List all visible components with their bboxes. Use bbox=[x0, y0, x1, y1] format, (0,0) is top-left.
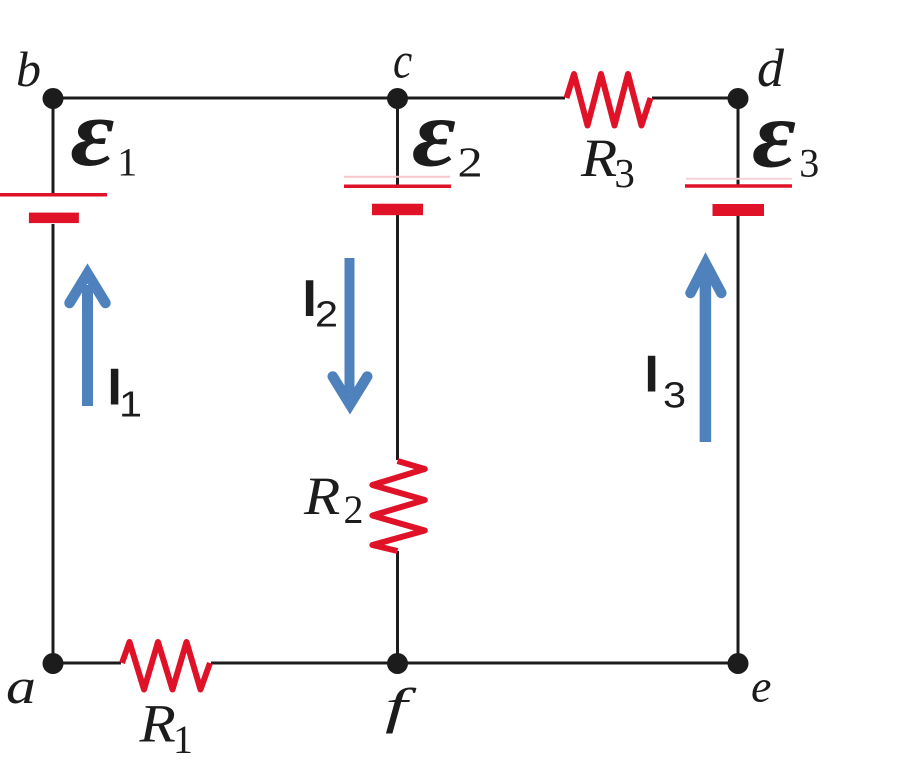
svg-text:3: 3 bbox=[799, 141, 819, 186]
svg-text:3: 3 bbox=[663, 376, 686, 416]
svg-text:1: 1 bbox=[173, 717, 193, 760]
svg-text:R: R bbox=[138, 694, 175, 754]
svg-text:1: 1 bbox=[117, 140, 137, 185]
svg-text:I: I bbox=[644, 346, 658, 404]
svg-text:3: 3 bbox=[614, 150, 635, 196]
svg-text:R: R bbox=[580, 128, 617, 188]
svg-text:ε: ε bbox=[70, 80, 114, 186]
svg-text:f: f bbox=[385, 680, 417, 735]
svg-text:c: c bbox=[393, 33, 412, 89]
svg-text:2: 2 bbox=[344, 487, 364, 532]
svg-text:2: 2 bbox=[458, 140, 483, 186]
svg-text:e: e bbox=[751, 661, 771, 712]
svg-text:1: 1 bbox=[119, 385, 142, 425]
svg-text:ε: ε bbox=[412, 81, 456, 187]
svg-text:ε: ε bbox=[752, 82, 796, 188]
svg-text:R: R bbox=[303, 466, 340, 526]
svg-text:b: b bbox=[16, 41, 41, 97]
svg-text:2: 2 bbox=[315, 295, 338, 335]
svg-text:a: a bbox=[6, 659, 36, 714]
